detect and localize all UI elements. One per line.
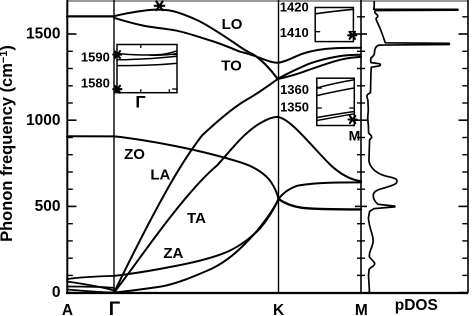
ZO' branch Gamma->K	[114, 199, 279, 276]
svg-text:M: M	[355, 302, 368, 316]
svg-text:ZO: ZO	[124, 146, 145, 163]
svg-text:LO: LO	[222, 16, 243, 33]
axis frame	[66, 0, 468, 293]
y-axis ticks left	[67, 34, 77, 293]
LA branch Gamma->K	[114, 79, 278, 293]
left y-axis	[66, 0, 68, 293]
svg-text:500: 500	[35, 198, 61, 215]
svg-text:1360: 1360	[280, 82, 309, 97]
low fan line 2 A->Gamma (flat ~35)	[67, 287, 114, 288]
LA lower branch K->M	[278, 57, 361, 79]
inset2 curve	[315, 9, 353, 14]
svg-text:1420: 1420	[280, 0, 309, 15]
inset1 curves	[117, 51, 177, 55]
svg-text:M: M	[349, 128, 361, 144]
svg-text:1000: 1000	[26, 112, 60, 129]
star inset3 1350	[349, 116, 357, 123]
ZA branch Gamma->K	[114, 199, 279, 293]
svg-text:Γ: Γ	[135, 93, 145, 112]
inset2 ticks	[315, 31, 320, 33]
K line	[278, 0, 280, 293]
svg-text:pDOS: pDOS	[395, 297, 438, 314]
svg-text:1590: 1590	[81, 49, 110, 64]
star at LO max	[155, 2, 165, 11]
svg-text:K: K	[273, 302, 285, 316]
svg-text:1350: 1350	[280, 100, 309, 115]
phonon density of states curve	[367, 1, 458, 293]
TA branch Gamma->K (arch at K)	[114, 117, 278, 293]
low fan line 3 A->Gamma	[67, 290, 114, 293]
inset3 curves	[317, 80, 354, 88]
LO upper branch K->M	[278, 55, 361, 79]
svg-text:0: 0	[52, 284, 61, 301]
svg-text:1500: 1500	[26, 26, 60, 43]
ZO branch Gamma->K	[114, 136, 279, 199]
pDOS right border	[467, 0, 469, 293]
M line ticks (cross)	[355, 34, 367, 206]
TO branch K->M (to ~1420)	[278, 48, 361, 63]
inset2 box	[315, 8, 353, 42]
svg-text:TO: TO	[221, 58, 242, 75]
svg-text:ZA: ZA	[163, 245, 183, 262]
top border (cropped, gray)	[67, 0, 468, 2]
inset1 ticks	[117, 54, 122, 56]
Gamma line	[113, 0, 115, 293]
TA branch K->M	[278, 117, 362, 181]
low fan line 1 A->Gamma	[67, 282, 114, 291]
ZO branch K->M (rises to ~630)	[279, 182, 362, 199]
svg-text:A: A	[62, 302, 73, 316]
svg-text:Γ: Γ	[109, 299, 121, 316]
ZO branch A-Gamma flat ~900	[67, 135, 114, 137]
svg-text:1580: 1580	[81, 76, 110, 91]
svg-text:TA: TA	[187, 210, 206, 227]
inset1 box	[117, 45, 177, 93]
TO branch Gamma->K (dip at K)	[114, 18, 278, 63]
LO/TO flat A-Gamma at 1600	[67, 15, 114, 17]
LO branch Gamma->K	[114, 10, 278, 79]
inset3 ticks	[317, 87, 322, 89]
ZA branch K->M (flat ~490)	[279, 199, 362, 210]
svg-text:Phonon frequency (cm−1): Phonon frequency (cm−1)	[0, 45, 16, 242]
star inset1 1580	[113, 86, 121, 93]
star inset1 1590	[113, 51, 121, 58]
star inset2 1410	[348, 32, 356, 39]
svg-text:LA: LA	[150, 167, 170, 184]
bottom x-axis	[66, 292, 468, 294]
svg-text:1410: 1410	[280, 25, 309, 40]
inset3 box	[317, 78, 355, 125]
right border ticks	[459, 34, 469, 293]
ZO' arch A-Gamma	[67, 276, 114, 279]
M line (pDOS left axis)	[360, 0, 362, 293]
